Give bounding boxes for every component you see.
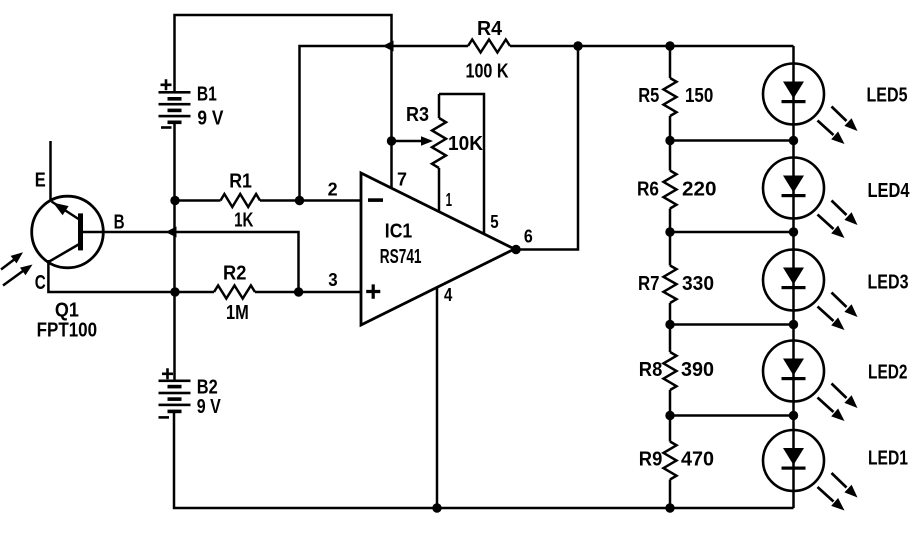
- svg-text:3: 3: [328, 270, 337, 290]
- wire bottom rail: [174, 412, 794, 509]
- wire collector C row / pin3: [48, 260, 214, 292]
- wire ladder column segment 5: [669, 390, 672, 442]
- wire pin4 vertical: [436, 288, 439, 508]
- battery B1 plus sign: [161, 79, 172, 90]
- svg-text:R1: R1: [229, 171, 252, 193]
- svg-text:Q1: Q1: [55, 300, 79, 322]
- battery B1 minus sign: [161, 126, 172, 129]
- resistor R2 1M: [214, 286, 255, 299]
- wire mid vertical B1- to B2+: [173, 123, 176, 382]
- svg-text:R2: R2: [223, 263, 246, 285]
- resistor R8 390: [664, 352, 677, 390]
- svg-text:R6: R6: [637, 179, 659, 201]
- svg-text:LED4: LED4: [868, 180, 911, 202]
- junction node pin4/ground rail: [432, 503, 441, 512]
- wire pin2 feedback loop + V rail y=46: [300, 46, 469, 201]
- battery B2 minus sign: [159, 416, 170, 419]
- svg-text:RS741: RS741: [380, 246, 422, 268]
- LED4 emitted light arrows: [832, 201, 847, 216]
- junction node C/R2/B2+ rail: [170, 287, 179, 296]
- svg-text:6: 6: [524, 227, 533, 247]
- wire base B to pin3 drop: [83, 232, 299, 292]
- junction node LED5/LED4: [789, 136, 798, 145]
- junction node LED4/LED3: [789, 227, 798, 236]
- junction node R1-left/B1- rail: [170, 196, 179, 205]
- LED5 emitted light arrows: [832, 107, 847, 122]
- svg-text:R3: R3: [406, 104, 429, 126]
- wire R1 row: [175, 199, 221, 202]
- battery B2 9V: [159, 380, 191, 383]
- wire ladder row 3: [670, 323, 794, 326]
- LED3 emitted light arrows: [832, 293, 847, 308]
- led3 LED3: [763, 250, 824, 311]
- resistor R4 100K: [468, 40, 510, 53]
- wire pin7 vertical: [390, 46, 393, 189]
- svg-text:R7: R7: [638, 273, 660, 295]
- svg-text:B: B: [114, 212, 125, 234]
- svg-text:100 K: 100 K: [466, 61, 509, 83]
- junction node R3 wiper tap: [387, 136, 396, 145]
- wire top rail from B1+ to pin7 drop: [175, 15, 392, 92]
- Q1 collector diagonal: [48, 245, 78, 263]
- wire output pin6 loop: [515, 46, 579, 250]
- led4 LED4: [763, 158, 824, 219]
- svg-text:LED3: LED3: [868, 272, 909, 294]
- wire ladder row 1: [670, 139, 794, 142]
- junction node R6/R7: [665, 227, 674, 236]
- svg-text:R5: R5: [638, 85, 659, 107]
- junction node R8/R9: [665, 411, 674, 420]
- junction mark at base tee: [166, 227, 177, 238]
- junction node R1-right/pin2: [295, 196, 304, 205]
- battery B2 plus sign: [162, 368, 173, 379]
- svg-text:4: 4: [444, 285, 452, 305]
- LED1 emitted light arrows: [832, 473, 847, 488]
- resistor R1 1K: [221, 194, 261, 207]
- wire ladder column segment 4: [669, 303, 672, 352]
- Q1 emitter diagonal: [52, 202, 79, 220]
- op-amp IC1 RS741 triangle: [361, 173, 515, 325]
- svg-text:9 V: 9 V: [197, 108, 224, 130]
- resistor R5 150: [664, 78, 677, 116]
- svg-text:B1: B1: [197, 84, 217, 106]
- junction node R2-right/pin3: [294, 287, 303, 296]
- led5 LED5: [763, 64, 824, 125]
- svg-text:470: 470: [681, 449, 714, 471]
- svg-text:C: C: [35, 272, 46, 294]
- wire ladder column segment 1: [669, 46, 672, 78]
- svg-text:FPT100: FPT100: [37, 320, 98, 342]
- svg-text:R8: R8: [639, 359, 663, 381]
- svg-text:IC1: IC1: [385, 221, 412, 243]
- junction node pin6 output apex: [511, 245, 520, 254]
- led2 LED2: [763, 341, 824, 402]
- Q1 emitter arrowhead: [53, 203, 69, 216]
- svg-text:10K: 10K: [448, 133, 484, 155]
- svg-text:150: 150: [685, 85, 713, 107]
- svg-text:7: 7: [397, 170, 407, 190]
- resistor R7 330: [664, 266, 677, 304]
- junction node R7/R8: [665, 320, 674, 329]
- R3 wiper arrow: [392, 140, 423, 143]
- led1 LED1: [763, 430, 824, 491]
- LED2 emitted light arrows: [832, 384, 847, 399]
- op-amp plus input symbol: [366, 284, 380, 298]
- svg-text:LED2: LED2: [868, 362, 908, 384]
- junction node R9/ground rail: [665, 503, 674, 512]
- svg-text:LED5: LED5: [867, 85, 908, 107]
- svg-text:1K: 1K: [234, 210, 254, 232]
- junction node R4/R5 top: [665, 41, 674, 50]
- Q1 emitter lead wire to E: [49, 141, 52, 201]
- junction node LED2/LED1: [789, 411, 798, 420]
- svg-text:1M: 1M: [226, 302, 249, 324]
- transistor Q1 FPT100 circle: [32, 196, 104, 268]
- svg-text:R9: R9: [639, 449, 663, 471]
- junction node R5/R6: [665, 136, 674, 145]
- Q1 base bar: [78, 213, 83, 250]
- Q1 incident light arrow 1: [1, 259, 16, 270]
- resistor R9 470: [664, 442, 677, 480]
- svg-text:330: 330: [682, 273, 714, 295]
- svg-text:1: 1: [446, 190, 452, 210]
- svg-text:390: 390: [681, 359, 714, 381]
- resistor R6 220: [664, 171, 677, 209]
- battery B1 9V: [159, 91, 191, 94]
- wire ladder column segment 6: [669, 480, 672, 509]
- svg-text:9 V: 9 V: [197, 396, 222, 418]
- Q1 incident light arrow 2: [3, 270, 25, 286]
- op-amp minus input symbol: [368, 198, 383, 202]
- svg-text:220: 220: [682, 179, 717, 201]
- wire ladder column segment 2: [669, 116, 672, 171]
- svg-text:E: E: [35, 170, 46, 192]
- R3 top strap to pin 5: [439, 94, 484, 234]
- junction mark at V+ tee: [383, 41, 394, 52]
- potentiometer R3 10K body: [438, 94, 441, 118]
- wire ladder column segment 3: [669, 209, 672, 266]
- wire ladder row 4: [670, 414, 794, 417]
- wire LED column: [792, 46, 795, 508]
- svg-text:5: 5: [490, 212, 498, 232]
- junction node LED3/LED2: [789, 320, 798, 329]
- junction node output/R4: [573, 41, 582, 50]
- svg-text:LED1: LED1: [868, 448, 908, 470]
- svg-text:R4: R4: [477, 18, 503, 40]
- wire ladder row 2: [670, 231, 794, 234]
- svg-text:2: 2: [328, 180, 338, 200]
